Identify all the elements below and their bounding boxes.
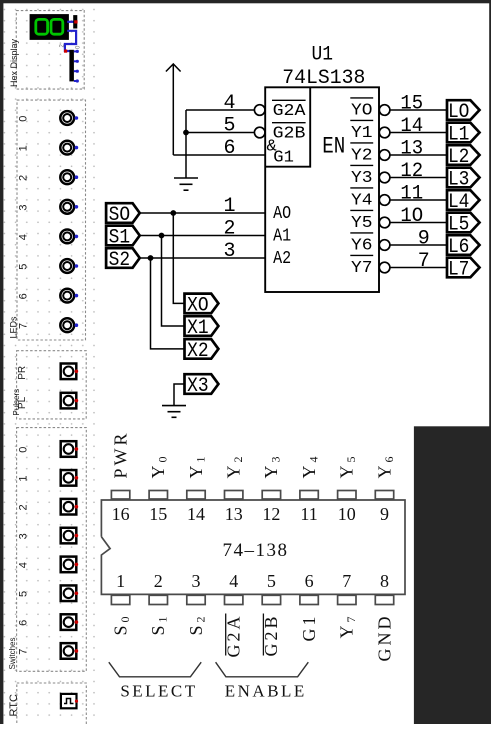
svg-text:6: 6 <box>305 571 314 591</box>
svg-text:G2A: G2A <box>273 102 307 121</box>
svg-text:L7: L7 <box>448 258 470 281</box>
svg-text:L5: L5 <box>448 213 470 236</box>
svg-text:15: 15 <box>149 504 167 524</box>
svg-text:12: 12 <box>262 504 280 524</box>
svg-text:0: 0 <box>18 116 30 122</box>
svg-text:ENABLE: ENABLE <box>225 681 307 700</box>
svg-text:1: 1 <box>223 195 235 218</box>
svg-text:3: 3 <box>18 533 30 539</box>
svg-text:LEDs: LEDs <box>9 316 19 339</box>
svg-text:1: 1 <box>18 476 30 482</box>
svg-text:3: 3 <box>18 204 30 210</box>
svg-text:Pulsers: Pulsers <box>12 389 21 416</box>
svg-text:EN: EN <box>322 134 345 160</box>
svg-text:1: 1 <box>116 571 125 591</box>
svg-text:4: 4 <box>229 571 238 591</box>
svg-text:G1: G1 <box>299 614 319 642</box>
svg-text:5: 5 <box>18 591 30 597</box>
svg-text:7: 7 <box>18 323 30 329</box>
svg-text:G2B: G2B <box>261 614 281 657</box>
svg-text:Y4: Y4 <box>351 192 373 211</box>
svg-text:L3: L3 <box>448 168 470 191</box>
svg-text:L1: L1 <box>448 123 470 146</box>
svg-text:2: 2 <box>223 218 235 241</box>
svg-text:1O: 1O <box>400 205 423 228</box>
svg-text:9: 9 <box>380 504 389 524</box>
svg-text:14: 14 <box>400 115 423 138</box>
svg-text:S1: S1 <box>109 226 131 249</box>
svg-text:SO: SO <box>109 204 131 227</box>
svg-text:14: 14 <box>187 504 205 524</box>
svg-text:Y1: Y1 <box>351 124 373 143</box>
svg-text:16: 16 <box>112 504 130 524</box>
svg-text:Hex Display: Hex Display <box>9 38 19 87</box>
svg-text:6: 6 <box>223 137 235 160</box>
svg-text:2: 2 <box>18 175 30 181</box>
svg-text:8: 8 <box>380 571 389 591</box>
svg-text:Switches: Switches <box>8 637 17 669</box>
svg-text:9: 9 <box>418 228 430 251</box>
svg-text:7: 7 <box>18 649 30 655</box>
svg-text:13: 13 <box>225 504 243 524</box>
svg-text:Y3: Y3 <box>351 169 373 188</box>
svg-text:74LS138: 74LS138 <box>282 67 365 90</box>
svg-text:S2: S2 <box>109 249 131 272</box>
svg-text:15: 15 <box>400 93 423 116</box>
svg-text:6: 6 <box>18 293 30 299</box>
svg-text:X1: X1 <box>187 317 209 340</box>
svg-text:2: 2 <box>18 504 30 510</box>
svg-text:7: 7 <box>418 250 430 273</box>
svg-text:4: 4 <box>223 92 235 115</box>
svg-text:5: 5 <box>18 264 30 270</box>
svg-text:7: 7 <box>342 571 351 591</box>
svg-text:U1: U1 <box>312 44 334 67</box>
svg-text:5: 5 <box>267 571 276 591</box>
svg-text:L2: L2 <box>448 146 470 169</box>
svg-text:SELECT: SELECT <box>120 681 197 700</box>
svg-text:G2B: G2B <box>273 124 306 143</box>
svg-text:Y7: Y7 <box>351 259 373 278</box>
svg-text:G2A: G2A <box>224 614 244 658</box>
svg-text:10: 10 <box>338 504 356 524</box>
svg-text:X3: X3 <box>187 375 209 398</box>
svg-text:74–138: 74–138 <box>223 540 289 561</box>
svg-text:L4: L4 <box>448 191 470 214</box>
svg-text:12: 12 <box>400 160 423 183</box>
svg-text:6: 6 <box>18 620 30 626</box>
svg-text:Y5: Y5 <box>351 214 373 233</box>
svg-text:LO: LO <box>448 101 470 124</box>
svg-text:1: 1 <box>18 145 30 151</box>
svg-text:11: 11 <box>300 504 317 524</box>
svg-text:11: 11 <box>400 183 423 206</box>
svg-text:A2: A2 <box>273 249 291 269</box>
svg-text:X2: X2 <box>187 340 209 363</box>
svg-text:3: 3 <box>223 240 235 263</box>
svg-text:RTC: RTC <box>8 694 20 716</box>
svg-text:5: 5 <box>223 115 235 138</box>
svg-text:Y6: Y6 <box>351 237 373 256</box>
svg-text:Y2: Y2 <box>351 147 373 166</box>
svg-text:13: 13 <box>400 138 423 161</box>
svg-text:A1: A1 <box>273 226 291 246</box>
svg-text:AO: AO <box>273 204 291 224</box>
svg-text:GND: GND <box>374 614 394 662</box>
svg-text:L6: L6 <box>448 236 470 259</box>
svg-text:XO: XO <box>187 294 209 317</box>
svg-text:PWR: PWR <box>110 430 130 478</box>
svg-text:3: 3 <box>192 571 201 591</box>
svg-text:G1: G1 <box>273 148 294 167</box>
svg-text:0: 0 <box>18 447 30 453</box>
svg-text:2: 2 <box>154 571 163 591</box>
svg-text:4: 4 <box>18 234 30 240</box>
svg-text:YO: YO <box>351 102 373 121</box>
svg-text:4: 4 <box>18 562 30 568</box>
svg-text:PR: PR <box>17 366 28 380</box>
